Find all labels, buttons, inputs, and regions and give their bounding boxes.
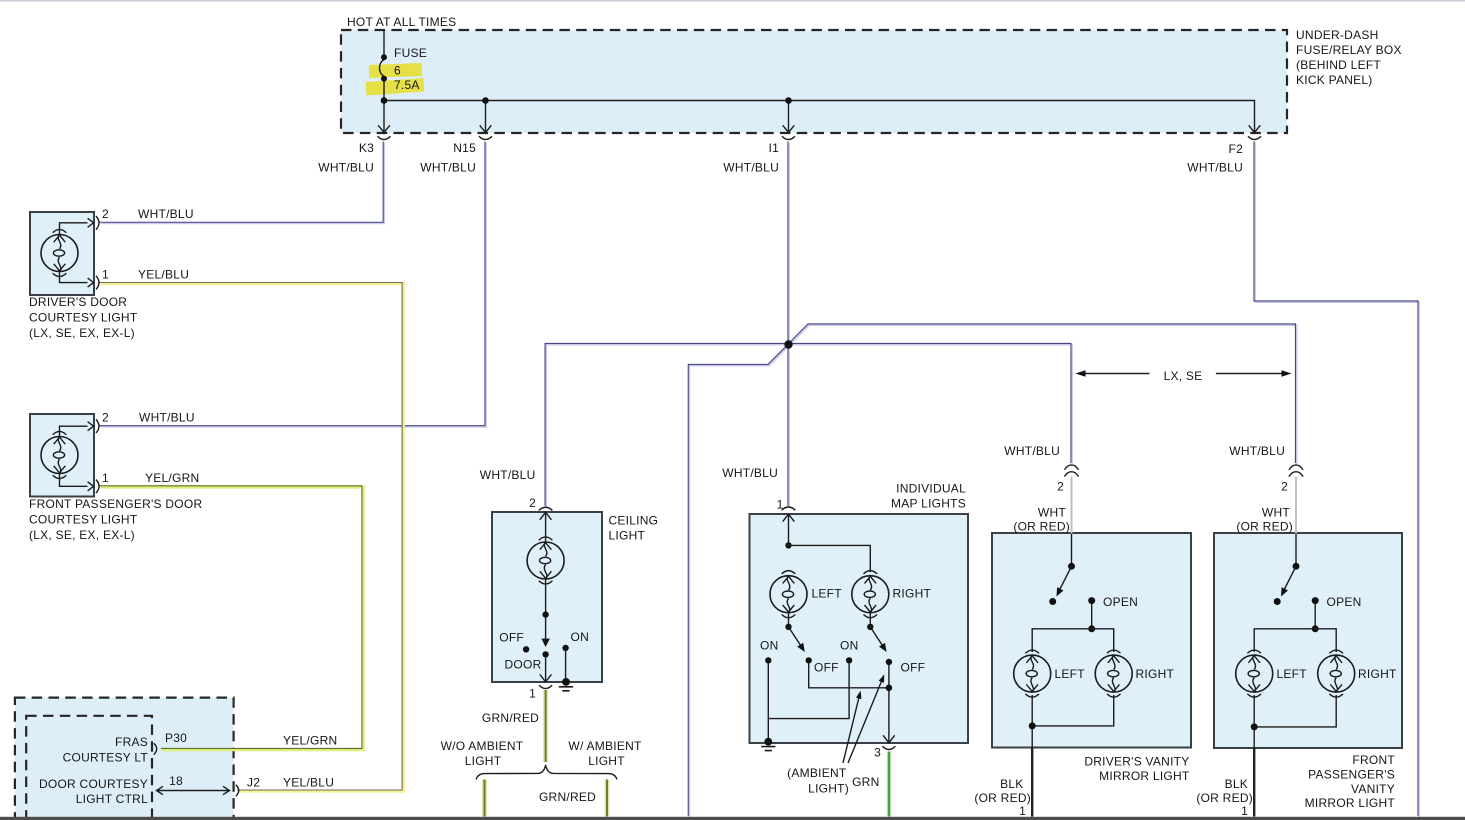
svg-text:FRONT PASSENGER'S DOOR: FRONT PASSENGER'S DOOR	[29, 497, 202, 511]
svg-text:2: 2	[1057, 480, 1064, 494]
wire GRN/RED below ceiling light	[543, 690, 548, 762]
svg-text:PASSENGER'S: PASSENGER'S	[1308, 768, 1395, 782]
wire WHT/BLU junction to driver vanity light	[788, 343, 1072, 464]
svg-text:OFF: OFF	[814, 661, 839, 675]
FRAS courtesy lt inner dashed box	[26, 716, 152, 819]
pin P30 connector	[154, 743, 157, 754]
map ground	[764, 738, 772, 746]
svg-text:(LX, SE, EX, EX-L): (LX, SE, EX, EX-L)	[29, 326, 135, 340]
terminal K3 exit arrow and connector	[378, 125, 390, 132]
svg-text:WHT/BLU: WHT/BLU	[318, 161, 374, 175]
wire YEL/GRN passenger's door pin1 to P30	[100, 486, 364, 750]
map ON contacts and ground run	[765, 657, 771, 663]
svg-text:3: 3	[874, 746, 881, 760]
FRAS door courtesy light ctrl outer dashed box	[15, 698, 234, 819]
wire WHT/BLU junction to ceiling light	[545, 343, 789, 506]
svg-text:WHT/BLU: WHT/BLU	[723, 161, 779, 175]
svg-text:1: 1	[102, 268, 109, 282]
svg-text:LIGHT: LIGHT	[465, 754, 502, 768]
svg-text:(BEHIND LEFT: (BEHIND LEFT	[1296, 58, 1381, 72]
svg-text:YEL/BLU: YEL/BLU	[138, 268, 189, 282]
svg-text:FUSE/RELAY BOX: FUSE/RELAY BOX	[1296, 43, 1402, 57]
svg-text:DOOR COURTESY: DOOR COURTESY	[39, 777, 148, 791]
svg-text:(AMBIENT: (AMBIENT	[787, 766, 847, 780]
svg-text:1: 1	[1241, 804, 1248, 818]
svg-text:1: 1	[777, 498, 784, 512]
svg-text:W/O AMBIENT: W/O AMBIENT	[441, 739, 524, 753]
svg-text:LEFT: LEFT	[1277, 667, 1308, 681]
passenger vanity switch	[1295, 534, 1297, 564]
ceiling light lamp	[527, 537, 564, 584]
wire GRN/RED w/ ambient branch	[605, 780, 610, 817]
individual map lights box	[750, 514, 969, 743]
svg-text:ON: ON	[840, 639, 859, 653]
svg-text:RIGHT: RIGHT	[1136, 667, 1175, 681]
map right lamp	[852, 571, 889, 618]
passenger's door pin 1 arrow and connector	[88, 482, 94, 491]
svg-text:WHT/BLU: WHT/BLU	[1187, 161, 1243, 175]
svg-text:INDIVIDUAL: INDIVIDUAL	[896, 482, 966, 496]
map right switch	[869, 613, 871, 624]
wire BLK (OR RED) below passenger vanity	[1253, 748, 1255, 817]
svg-text:RIGHT: RIGHT	[1358, 667, 1397, 681]
page bottom border	[0, 817, 1465, 820]
wire WHT/BLU F2 down right side	[1254, 141, 1419, 817]
svg-text:MIRROR LIGHT: MIRROR LIGHT	[1305, 796, 1396, 810]
svg-text:LIGHT: LIGHT	[609, 529, 646, 543]
svg-text:WHT/BLU: WHT/BLU	[420, 161, 476, 175]
svg-text:WHT/BLU: WHT/BLU	[138, 207, 194, 221]
terminal N15 exit arrow and connector	[480, 125, 492, 132]
driver vanity switch	[1071, 534, 1073, 564]
svg-text:LEFT: LEFT	[1055, 667, 1086, 681]
svg-text:WHT/BLU: WHT/BLU	[480, 468, 536, 482]
svg-text:2: 2	[529, 496, 536, 510]
svg-text:GRN/RED: GRN/RED	[539, 790, 596, 804]
passenger's door courtesy light lamp	[41, 431, 78, 478]
svg-text:OPEN: OPEN	[1103, 595, 1138, 609]
wire WHT/BLU I1 to map lights, node at central junction	[788, 141, 789, 506]
svg-text:I1: I1	[768, 141, 779, 155]
svg-text:WHT: WHT	[1038, 506, 1066, 520]
svg-text:FRAS: FRAS	[115, 735, 148, 749]
wire WHT (OR RED) above driver vanity	[1071, 477, 1073, 534]
svg-text:FUSE: FUSE	[394, 46, 427, 60]
passenger vanity inline connector break	[1289, 465, 1303, 477]
svg-text:COURTESY LIGHT: COURTESY LIGHT	[29, 513, 138, 527]
map left switch	[788, 613, 790, 624]
map left lamp	[770, 571, 807, 618]
wire WHT/BLU N15 to front passenger's door courtesy light	[99, 141, 486, 426]
svg-text:7.5A: 7.5A	[394, 78, 420, 92]
passenger vanity lamp rail	[1254, 629, 1336, 652]
ceiling light box	[492, 512, 602, 682]
brace split of GRN/RED wire	[476, 765, 617, 780]
wire GRN/RED w/o ambient branch	[482, 780, 487, 817]
driver's door courtesy light lamp	[41, 229, 78, 276]
svg-text:F2: F2	[1228, 142, 1243, 156]
wire WHT/BLU K3 to driver's door courtesy light	[99, 141, 384, 223]
driver vanity left lamp	[1014, 650, 1051, 697]
fuse 6 7.5A highlight marks	[366, 63, 425, 95]
passenger vanity right lamp	[1318, 650, 1355, 697]
terminal 18 double arrow	[157, 786, 230, 794]
svg-text:YEL/BLU: YEL/BLU	[283, 776, 334, 790]
svg-text:LIGHT): LIGHT)	[808, 782, 849, 796]
ceiling light pin 1 exit arrow and connector	[540, 674, 552, 682]
svg-text:UNDER-DASH: UNDER-DASH	[1296, 28, 1379, 42]
driver's door courtesy light box	[30, 212, 94, 295]
svg-text:(OR RED): (OR RED)	[1013, 520, 1070, 534]
svg-text:MIRROR LIGHT: MIRROR LIGHT	[1099, 769, 1190, 783]
svg-text:(LX, SE, EX, EX-L): (LX, SE, EX, EX-L)	[29, 528, 135, 542]
svg-text:MAP LIGHTS: MAP LIGHTS	[891, 497, 966, 511]
svg-text:DRIVER'S DOOR: DRIVER'S DOOR	[29, 295, 127, 309]
svg-text:LIGHT: LIGHT	[588, 754, 625, 768]
svg-text:2: 2	[102, 207, 109, 221]
driver's door pin 1 arrow and connector	[88, 278, 94, 287]
pin J2 connector	[236, 785, 239, 796]
driver's door pin 2 arrow and connector	[88, 218, 94, 227]
wire GRN below map lights	[887, 752, 891, 817]
central junction node	[784, 340, 792, 348]
svg-text:OFF: OFF	[901, 661, 926, 675]
svg-text:K3: K3	[359, 141, 374, 155]
svg-text:LEFT: LEFT	[812, 587, 843, 601]
svg-text:18: 18	[169, 774, 183, 788]
fuse box bus wire	[384, 101, 1255, 133]
under-dash fuse/relay box	[341, 30, 1287, 133]
bus junction nodes	[381, 97, 388, 104]
svg-text:OPEN: OPEN	[1327, 595, 1362, 609]
svg-text:WHT/BLU: WHT/BLU	[722, 466, 778, 480]
passenger vanity bottom rail	[1254, 695, 1336, 748]
svg-text:2: 2	[102, 411, 109, 425]
wire WHT (OR RED) above passenger vanity	[1295, 477, 1297, 534]
svg-text:ON: ON	[571, 630, 590, 644]
svg-text:ON: ON	[760, 639, 779, 653]
svg-text:BLK: BLK	[1000, 777, 1023, 791]
wire WHT/BLU junction to ambient light page exit	[688, 344, 789, 817]
svg-text:GRN/RED: GRN/RED	[482, 711, 539, 725]
svg-text:YEL/GRN: YEL/GRN	[145, 471, 199, 485]
ceiling light ground	[565, 651, 567, 678]
svg-text:WHT/BLU: WHT/BLU	[1004, 444, 1060, 458]
svg-text:N15: N15	[453, 141, 476, 155]
terminal I1 exit arrow and connector	[783, 125, 795, 132]
svg-text:(OR RED): (OR RED)	[1236, 520, 1293, 534]
driver vanity right lamp	[1095, 650, 1132, 697]
svg-text:J2: J2	[247, 776, 260, 790]
svg-text:KICK PANEL): KICK PANEL)	[1296, 73, 1373, 87]
page top border	[0, 0, 1465, 2]
ceiling light switch	[545, 579, 547, 639]
driver's vanity mirror light box	[992, 533, 1191, 748]
passenger's door pin 2 arrow and connector	[88, 422, 94, 431]
terminal F2 exit arrow and connector	[1249, 125, 1261, 132]
fuse 6 7.5A element	[380, 30, 385, 101]
map lights pin 1 entry connector and arrow	[782, 507, 796, 510]
svg-text:WHT: WHT	[1262, 506, 1290, 520]
svg-text:GRN: GRN	[852, 775, 879, 789]
svg-text:OFF: OFF	[499, 631, 524, 645]
LX, SE range arrow	[1078, 373, 1288, 375]
svg-text:LX, SE: LX, SE	[1164, 369, 1203, 383]
passenger vanity left lamp	[1236, 650, 1273, 697]
svg-text:1: 1	[1019, 804, 1026, 818]
svg-text:LIGHT CTRL: LIGHT CTRL	[76, 792, 148, 806]
map lights feed to right lamp	[789, 545, 871, 572]
svg-text:COURTESY LIGHT: COURTESY LIGHT	[29, 311, 138, 325]
front passenger's door courtesy light box	[30, 414, 94, 497]
svg-text:VANITY: VANITY	[1351, 782, 1395, 796]
wire BLK (OR RED) below driver vanity	[1031, 748, 1033, 817]
svg-text:6: 6	[394, 64, 401, 78]
driver vanity inline connector break	[1064, 465, 1078, 477]
svg-text:WHT/BLU: WHT/BLU	[139, 411, 195, 425]
wire YEL/BLU driver's door pin1 to J2	[100, 283, 404, 792]
svg-text:DRIVER'S VANITY: DRIVER'S VANITY	[1084, 755, 1189, 769]
map pin 3 exit arrow and connector	[883, 735, 895, 743]
wire WHT/BLU junction to passenger vanity light	[788, 324, 1297, 464]
svg-text:YEL/GRN: YEL/GRN	[283, 734, 337, 748]
svg-text:(OR RED): (OR RED)	[974, 791, 1031, 805]
ambient light callout arrows	[843, 698, 859, 763]
svg-text:(OR RED): (OR RED)	[1196, 791, 1253, 805]
svg-text:1: 1	[529, 687, 536, 701]
svg-text:CEILING: CEILING	[609, 514, 659, 528]
svg-text:WHT/BLU: WHT/BLU	[1229, 444, 1285, 458]
svg-text:P30: P30	[165, 731, 187, 745]
ceiling light pin 2 entry connector and arrow	[539, 507, 553, 510]
svg-text:DOOR: DOOR	[505, 658, 542, 672]
svg-text:2: 2	[1281, 480, 1288, 494]
svg-text:1: 1	[102, 471, 109, 485]
driver vanity lamp rail	[1032, 629, 1114, 652]
svg-text:FRONT: FRONT	[1352, 753, 1395, 767]
svg-text:COURTESY LT: COURTESY LT	[63, 751, 149, 765]
front passenger's vanity mirror light box	[1214, 533, 1402, 748]
svg-text:BLK: BLK	[1225, 777, 1248, 791]
driver vanity bottom rail	[1032, 695, 1114, 748]
svg-text:HOT AT ALL TIMES: HOT AT ALL TIMES	[347, 15, 456, 29]
svg-text:W/ AMBIENT: W/ AMBIENT	[568, 739, 642, 753]
svg-text:RIGHT: RIGHT	[893, 587, 932, 601]
